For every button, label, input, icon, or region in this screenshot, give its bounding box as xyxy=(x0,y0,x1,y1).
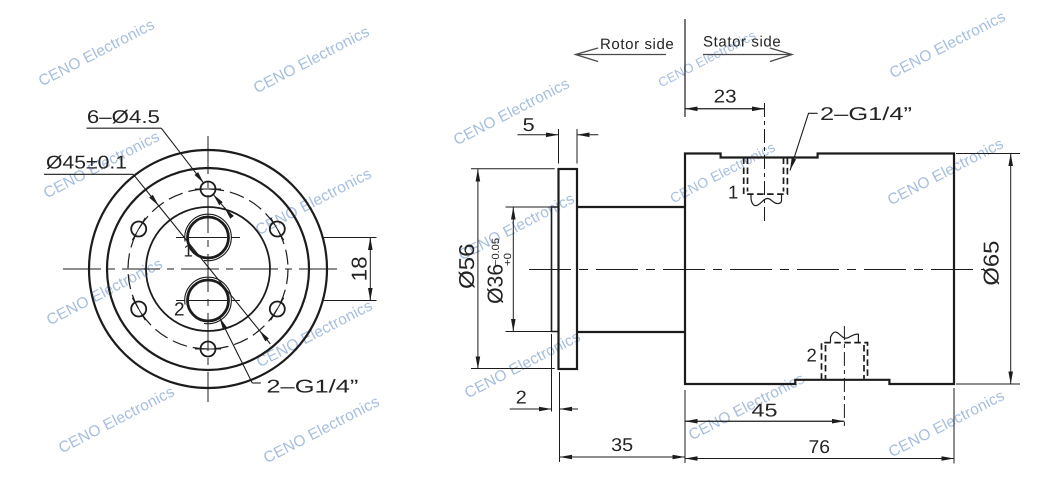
svg-text:2: 2 xyxy=(516,387,527,408)
svg-text:Ø65: Ø65 xyxy=(980,241,1004,286)
svg-text:76: 76 xyxy=(809,436,831,457)
svg-text:Stator side: Stator side xyxy=(703,33,781,50)
svg-text:Ø45±0.1: Ø45±0.1 xyxy=(46,152,127,173)
svg-text:45: 45 xyxy=(752,400,778,421)
svg-text:+0: +0 xyxy=(502,253,514,266)
svg-text:Ø36: Ø36 xyxy=(484,264,508,304)
svg-text:1: 1 xyxy=(728,182,738,203)
svg-text:5: 5 xyxy=(523,114,535,135)
svg-text:2: 2 xyxy=(174,300,185,321)
svg-text:23: 23 xyxy=(714,86,737,107)
svg-text:1: 1 xyxy=(184,242,193,261)
svg-text:Rotor side: Rotor side xyxy=(600,36,674,53)
svg-text:18: 18 xyxy=(348,256,372,281)
svg-text:6–Ø4.5: 6–Ø4.5 xyxy=(87,106,160,127)
svg-text:2: 2 xyxy=(807,345,817,366)
svg-text:−0.05: −0.05 xyxy=(490,238,502,266)
svg-text:35: 35 xyxy=(611,434,633,455)
svg-text:2–G1/4”: 2–G1/4” xyxy=(820,103,912,124)
svg-text:Ø56: Ø56 xyxy=(455,243,479,289)
svg-text:2–G1/4”: 2–G1/4” xyxy=(266,376,358,397)
